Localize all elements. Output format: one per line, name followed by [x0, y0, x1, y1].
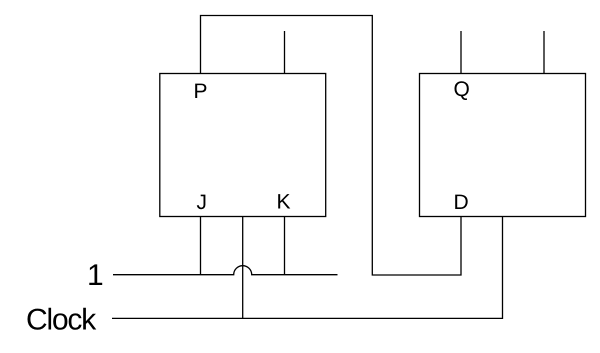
wire U1 clock pin down to clock line	[242, 217, 244, 319]
net label 1	[89, 264, 102, 285]
node logic-1 line with hop over clock wire	[113, 266, 338, 275]
stub pin top of U2 (Q output)	[460, 31, 462, 74]
wire K pin down to logic-1 line	[284, 217, 286, 275]
wire J pin down to logic-1 line	[200, 217, 202, 275]
pin label Q	[455, 81, 469, 100]
flip-flop U2 (D) box	[420, 74, 586, 217]
pin label P	[195, 84, 206, 98]
net label Clock	[28, 308, 97, 330]
stub pin top of U1	[284, 31, 286, 74]
pin label K	[278, 194, 290, 208]
pin label J	[197, 195, 206, 210]
stub pin top-right of U2	[543, 31, 545, 74]
wire feedback Q-to-P: P pin up, across top, down, to D pin	[201, 16, 462, 276]
wire clock line	[112, 217, 503, 319]
flip-flop U1 (JK) box	[160, 74, 326, 217]
pin label D	[455, 195, 468, 209]
